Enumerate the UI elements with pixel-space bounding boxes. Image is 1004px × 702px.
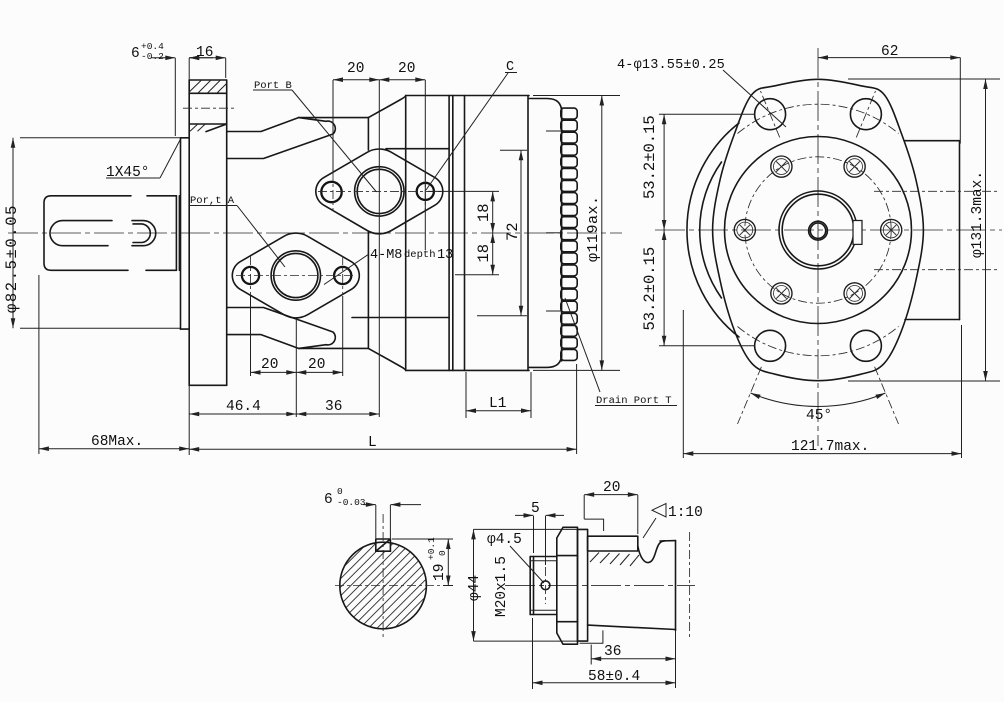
dimension 20 20 bottom (Port A bolt spacing) [251, 296, 343, 376]
svg-text:φ44: φ44 [467, 575, 483, 601]
dimension phi131.3max [848, 79, 1000, 381]
tooth tick lines [546, 131, 561, 311]
svg-text:19: 19 [432, 564, 448, 581]
body silhouette behind flange [905, 141, 960, 320]
svg-text:4-φ13.55±0.25: 4-φ13.55±0.25 [617, 58, 725, 73]
Port A obround flange [232, 233, 359, 318]
dimension 121.7max [683, 310, 961, 458]
dimension 36 (taper length) [591, 645, 675, 665]
screw at 240 deg [771, 283, 792, 304]
bottom wing port boss [227, 308, 336, 349]
view centerlines [655, 229, 1002, 231]
screw at 0 deg [881, 219, 902, 240]
end cap [529, 99, 562, 368]
main axis centerline [8, 232, 622, 234]
dimension 53.2 upper [659, 114, 755, 230]
svg-text:4-M8: 4-M8 [370, 248, 402, 263]
front section right edge [367, 118, 369, 349]
svg-text:16: 16 [196, 45, 213, 61]
svg-text:-0.2: -0.2 [141, 51, 164, 62]
svg-text:φ82.5±0.05: φ82.5±0.05 [3, 204, 21, 313]
svg-text:53.2±0.15: 53.2±0.15 [641, 247, 659, 331]
cotter pin hole phi4.5 [541, 581, 550, 590]
svg-text:72: 72 [504, 222, 522, 241]
Port B bolt holes 4-M8 [321, 182, 341, 202]
dimension 20 20 top (Port B bolt spacing) [333, 80, 425, 417]
center pilot hole [809, 221, 828, 240]
Port B centerlines [318, 190, 441, 192]
svg-text:62: 62 [881, 44, 898, 60]
screws (6x hex socket) [734, 156, 902, 304]
keyway notch white mask [376, 539, 390, 551]
svg-text:M20x1.5: M20x1.5 [494, 556, 510, 617]
flange hatch top band [189, 81, 226, 132]
section hatch [333, 478, 433, 690]
dimension 45 deg arc [751, 393, 886, 406]
dimension phi119ax [533, 96, 620, 371]
dimension 16 (flange width) [189, 58, 226, 78]
svg-text:121.7max.: 121.7max. [791, 439, 869, 455]
svg-text:13: 13 [437, 248, 453, 263]
dimension 20 (key) [584, 495, 638, 534]
screw at 180 deg [734, 219, 755, 240]
svg-text:L: L [368, 435, 377, 451]
inner body arc (left) [700, 162, 722, 298]
svg-text:L1: L1 [489, 396, 506, 412]
Port A bore [271, 251, 320, 300]
dimension 68Max [39, 275, 189, 454]
svg-text:18: 18 [475, 244, 493, 263]
taper and shaft outline [588, 541, 676, 631]
thread stub M20 [530, 557, 557, 615]
flange hole BL [755, 330, 786, 361]
dimension phi82.5 +-0.05 [13, 138, 180, 328]
castle nut [557, 527, 578, 644]
shaft bore circles [779, 191, 857, 269]
taper flag 1:10 [652, 504, 666, 518]
projected port axes [874, 190, 1000, 192]
shaft keyway slot [50, 221, 156, 246]
4-bolt flange outline [713, 79, 924, 380]
body section seams [406, 96, 528, 371]
dimension 46.4 [189, 320, 296, 455]
svg-text:0: 0 [337, 486, 343, 497]
screw at 300 deg [844, 283, 865, 304]
Port B bore [355, 167, 404, 216]
svg-text:6: 6 [324, 492, 333, 508]
body bottom edge with cone to barrel [227, 335, 529, 371]
geroler teeth stack [561, 108, 577, 360]
screw at 60 deg [844, 156, 865, 177]
svg-text:46.4: 46.4 [226, 399, 261, 415]
dimension 36 [296, 413, 379, 415]
bolt hole circle dash-dot arcs r125.3 [738, 104, 899, 133]
svg-text:-0.03: -0.03 [337, 497, 366, 508]
svg-text:0: 0 [437, 550, 448, 556]
thread ticks under key [590, 553, 639, 567]
dimension 58 +-0.4 [533, 618, 676, 689]
svg-text:1:10: 1:10 [668, 505, 703, 521]
svg-text:φ119ax.: φ119ax. [585, 195, 602, 262]
geroler housing circle [725, 137, 912, 324]
dimension 6 +0.4/-0.2 (pilot thickness) [151, 58, 213, 136]
svg-text:36: 36 [604, 644, 621, 660]
body top edge with cone to barrel [227, 96, 529, 132]
Port B obround flange [316, 149, 443, 234]
flange hole TL [755, 99, 786, 130]
svg-text:20: 20 [398, 61, 415, 77]
keyway notch with key [376, 539, 391, 551]
axis centerline [505, 584, 695, 586]
flange hole BR [850, 330, 881, 361]
dimension 62 [818, 58, 960, 144]
dimension 5 [515, 515, 564, 565]
svg-text:20: 20 [347, 61, 364, 77]
svg-text:6: 6 [131, 46, 140, 62]
svg-text:20: 20 [603, 480, 620, 496]
break-out wavy line [638, 541, 665, 563]
svg-text:20: 20 [308, 357, 325, 373]
washer phi44 [578, 529, 588, 641]
svg-text:45°: 45° [806, 408, 832, 424]
Port A bolt holes 4-M8 [242, 267, 259, 284]
svg-text:36: 36 [325, 399, 342, 415]
section centerlines [382, 514, 384, 640]
svg-text:20: 20 [261, 357, 278, 373]
radial centerlines through flange holes [738, 91, 899, 424]
body step lines at port tangents [352, 149, 449, 318]
phi119 gear arc (left) [687, 123, 739, 337]
mounting flange with bolt hole section [189, 80, 227, 385]
svg-text:1X45°: 1X45° [106, 165, 150, 181]
flange bolt hole axis [183, 107, 236, 109]
svg-text:53.2±0.15: 53.2±0.15 [641, 115, 659, 199]
shaft section circle [340, 542, 427, 629]
svg-text:5: 5 [531, 501, 540, 517]
svg-text:φ131.3max.: φ131.3max. [970, 171, 986, 258]
shaft keyway slot [853, 221, 862, 245]
pilot disc phi82.5 [181, 138, 190, 329]
shaft outline [44, 196, 179, 270]
key on taper [588, 536, 638, 551]
dimension L [189, 364, 576, 454]
dimension 18 18 (port offsets) [428, 191, 499, 274]
svg-text:58±0.4: 58±0.4 [588, 669, 640, 685]
dimension 6 0/-0.03 (key width) [363, 505, 421, 538]
dimension 19 +0.1/0 (keyway depth) [392, 539, 453, 586]
svg-text:φ4.5: φ4.5 [487, 532, 522, 548]
svg-text:+0.1: +0.1 [426, 537, 437, 560]
svg-text:68Max.: 68Max. [91, 434, 143, 450]
flange hole TR [850, 99, 881, 130]
svg-text:depth: depth [404, 249, 436, 261]
dimension 53.2 lower [659, 230, 755, 346]
screw bolt circle dash-dot r73.2 [745, 157, 891, 303]
top wing port boss [227, 118, 336, 159]
dimension 72 [477, 150, 527, 316]
label phi44 [474, 529, 578, 641]
dimension L1 [466, 372, 531, 418]
Port A centerlines [236, 275, 356, 277]
screw at 120 deg [771, 156, 792, 177]
svg-text:18: 18 [475, 203, 493, 222]
